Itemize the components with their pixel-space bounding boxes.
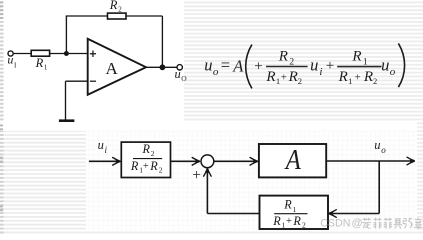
white panel (op-amp figure)	[4, 0, 184, 123]
feedback bar	[274, 213, 307, 215]
svg-text:1: 1	[293, 205, 297, 214]
svg-text:u: u	[374, 138, 380, 152]
wire A to output arrow	[326, 160, 414, 162]
wire input to R1	[13, 53, 31, 55]
eq frac2 bar	[337, 66, 381, 68]
white band between figures	[0, 122, 417, 130]
svg-text:+: +	[143, 161, 149, 172]
svg-text:2: 2	[298, 76, 302, 86]
block R2/(R1+R2)	[121, 142, 170, 177]
svg-text:R: R	[35, 56, 44, 70]
svg-text:o: o	[213, 66, 219, 78]
wire feedback block to summer	[207, 213, 259, 215]
wire top right segment	[126, 15, 162, 17]
svg-text:R: R	[272, 214, 281, 228]
wire R1 to op-amp + input	[50, 53, 88, 55]
eq right paren	[398, 43, 404, 87]
resistor R2	[108, 13, 127, 19]
svg-text:=: =	[221, 56, 230, 75]
svg-text:i: i	[319, 66, 322, 78]
svg-text:2: 2	[151, 149, 155, 158]
watermark CJK glyph marks	[362, 218, 422, 230]
wire summer to A arrow	[214, 160, 258, 162]
op-amp A triangle	[88, 39, 146, 95]
svg-text:2: 2	[373, 76, 377, 86]
summing junction	[201, 155, 214, 168]
svg-text:u: u	[175, 67, 181, 81]
svg-text:R: R	[351, 48, 361, 64]
svg-text:R: R	[338, 69, 348, 85]
left edge dash column	[0, 0, 4, 234]
svg-text:@: @	[352, 217, 363, 229]
svg-text:A: A	[232, 57, 244, 76]
svg-text:2: 2	[118, 5, 122, 13]
svg-text:A: A	[106, 59, 119, 78]
svg-text:CSDN: CSDN	[320, 217, 350, 229]
svg-text:+: +	[355, 73, 361, 84]
wire top left segment	[66, 15, 108, 17]
ground	[59, 119, 75, 122]
svg-text:R: R	[142, 142, 151, 156]
svg-text:u: u	[98, 138, 104, 152]
svg-text:o: o	[381, 145, 386, 155]
svg-text:+: +	[192, 167, 201, 184]
svg-text:2: 2	[159, 166, 163, 175]
wire - input down to ground	[65, 81, 67, 120]
block R1/(R1+R2) feedback	[260, 196, 329, 229]
svg-text:u: u	[381, 56, 389, 75]
svg-text:+: +	[281, 73, 287, 84]
svg-text:u: u	[7, 53, 13, 67]
svg-text:1: 1	[348, 76, 352, 86]
svg-text:u: u	[310, 55, 318, 74]
svg-text:R: R	[149, 159, 158, 173]
svg-text:R: R	[292, 214, 301, 228]
svg-text:1: 1	[282, 220, 286, 229]
resistor R1	[31, 50, 49, 56]
svg-text:R: R	[130, 159, 139, 173]
svg-text:R: R	[265, 69, 275, 85]
wire input arrow	[89, 160, 120, 162]
node junction dot	[64, 51, 69, 56]
svg-text:u: u	[204, 55, 212, 74]
wire - input left	[66, 80, 88, 82]
svg-text:A: A	[284, 143, 301, 175]
svg-text:+: +	[254, 59, 262, 75]
svg-text:O: O	[181, 74, 187, 83]
svg-text:1: 1	[276, 76, 280, 86]
op-amp - input sign	[90, 80, 96, 82]
eq frac1 bar	[266, 66, 308, 68]
wire down to output node	[161, 16, 163, 67]
output terminal u_O	[177, 65, 182, 70]
wire block1 to summer arrow	[170, 160, 199, 162]
output node dot	[160, 64, 166, 70]
svg-text:R: R	[288, 69, 298, 85]
wire junction up	[65, 16, 67, 54]
svg-text:R: R	[283, 198, 292, 212]
left edge darker dashes	[0, 1, 3, 211]
svg-text:2: 2	[302, 220, 306, 229]
svg-text:R: R	[278, 48, 288, 64]
wire output branch down	[378, 161, 380, 214]
svg-text:R: R	[109, 0, 118, 12]
svg-text:o: o	[390, 66, 396, 78]
wire op-amp output	[146, 66, 177, 68]
eq left paren	[246, 45, 252, 89]
wire feedback right to block arrow	[329, 213, 379, 215]
svg-text:R: R	[363, 69, 373, 85]
block1 bar	[133, 158, 162, 160]
op-amp + input sign	[90, 51, 96, 58]
svg-text:+: +	[326, 58, 334, 74]
block A	[259, 144, 326, 177]
white panel (block diagram figure)	[86, 131, 417, 230]
svg-text:1: 1	[44, 63, 48, 71]
input terminal u_I	[8, 51, 13, 56]
wire feedback up into summer arrow	[206, 169, 208, 214]
svg-text:+: +	[286, 216, 292, 227]
